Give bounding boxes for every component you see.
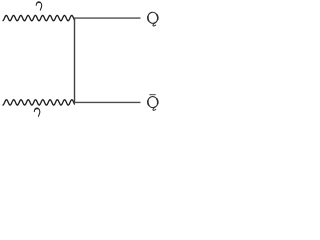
label gamma (bottom photon) <box>34 108 40 116</box>
quark propagator (vertical internal line) <box>74 18 76 102</box>
photon gamma1 (top incoming wavy line) <box>3 15 75 20</box>
antiquark line Qbar (bottom outgoing line) <box>74 101 140 103</box>
photon gamma2 (bottom incoming wavy line) <box>3 100 75 105</box>
label Qbar glyph (bottom antiquark) <box>147 96 158 110</box>
quark line Q (top outgoing line) <box>74 17 140 19</box>
label gamma (top photon) <box>36 2 42 10</box>
label Q (top quark) <box>147 12 158 26</box>
overbar of Qbar <box>149 94 155 95</box>
